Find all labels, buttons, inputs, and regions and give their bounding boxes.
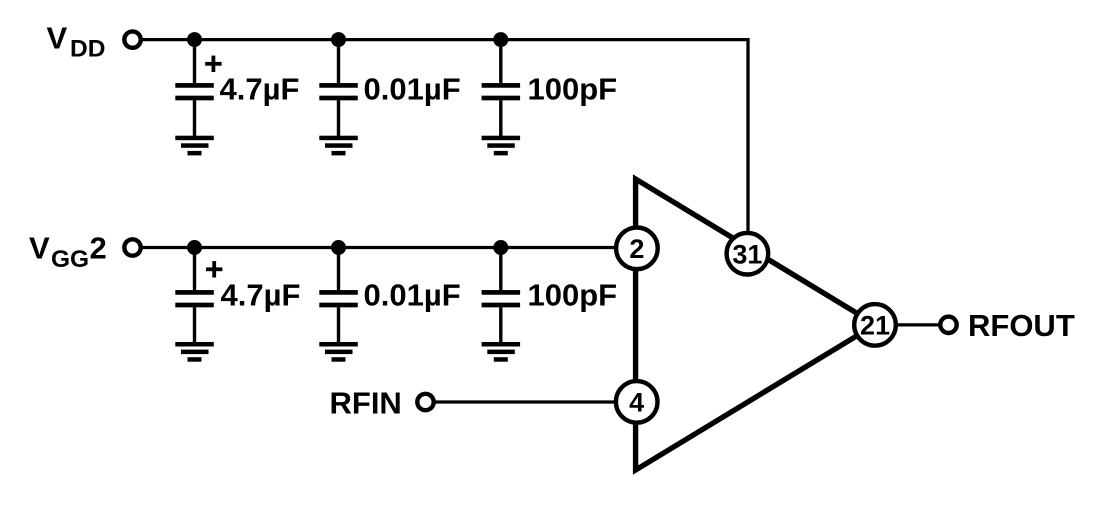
svg-text:100pF: 100pF (528, 278, 618, 313)
svg-text:0.01µF: 0.01µF (364, 71, 461, 106)
svg-text:V: V (47, 21, 68, 56)
wire pin 21 to RFOUT terminal (875, 323, 940, 326)
plus polarity C4 (206, 261, 222, 277)
capacitor C5 0.01uF (319, 248, 358, 343)
ground C3 (482, 136, 520, 156)
junction dot VDD-C2 (331, 32, 346, 47)
terminal RFIN (417, 394, 433, 410)
pin 31 (727, 233, 769, 275)
svg-text:4: 4 (629, 388, 644, 418)
svg-text:4.7µF: 4.7µF (220, 71, 300, 106)
svg-text:21: 21 (860, 311, 890, 341)
ground C1 (175, 136, 214, 156)
ground C4 (175, 342, 214, 362)
junction dot VDD-C3 (493, 32, 508, 47)
node VDD label (47, 21, 106, 63)
junction dot VGG2-C4 (187, 240, 202, 255)
svg-text:RFOUT: RFOUT (968, 308, 1075, 343)
svg-text:100pF: 100pF (528, 71, 618, 106)
junction dot VGG2-C6 (493, 240, 508, 255)
ground C6 (482, 342, 520, 362)
svg-text:RFIN: RFIN (330, 386, 402, 421)
junction dot VGG2-C5 (331, 240, 346, 255)
capacitor C2 0.01uF (319, 40, 358, 136)
ground C2 (319, 136, 358, 156)
terminal RFOUT (940, 317, 956, 333)
svg-text:2: 2 (629, 234, 644, 264)
capacitor C6 100pF (482, 248, 520, 343)
pin 2 (616, 228, 658, 270)
capacitor C3 100pF (482, 40, 520, 136)
pin 21 (854, 304, 896, 346)
svg-text:4.7µF: 4.7µF (221, 278, 301, 313)
ground C5 (319, 342, 358, 362)
svg-text:0.01µF: 0.01µF (364, 278, 461, 313)
junction dot VDD-C1 (187, 32, 202, 47)
svg-text:GG: GG (51, 246, 89, 273)
capacitor C1 4.7uF (175, 40, 214, 136)
wire RFIN to pin 4 (436, 400, 619, 403)
svg-text:2: 2 (90, 230, 107, 265)
terminal VGG2 (124, 239, 140, 255)
pin 4 (616, 381, 658, 423)
svg-text:V: V (29, 230, 50, 265)
terminal VDD (124, 31, 140, 47)
wire VDD rail and drop to pin 31 (143, 40, 749, 231)
plus polarity C1 (205, 56, 221, 72)
wire VGG2 rail (143, 246, 617, 249)
svg-text:31: 31 (732, 240, 762, 270)
op-amp U1 triangle (636, 179, 876, 470)
capacitor C4 4.7uF (175, 248, 214, 343)
svg-text:DD: DD (70, 35, 105, 62)
node VGG2 label (29, 230, 107, 273)
